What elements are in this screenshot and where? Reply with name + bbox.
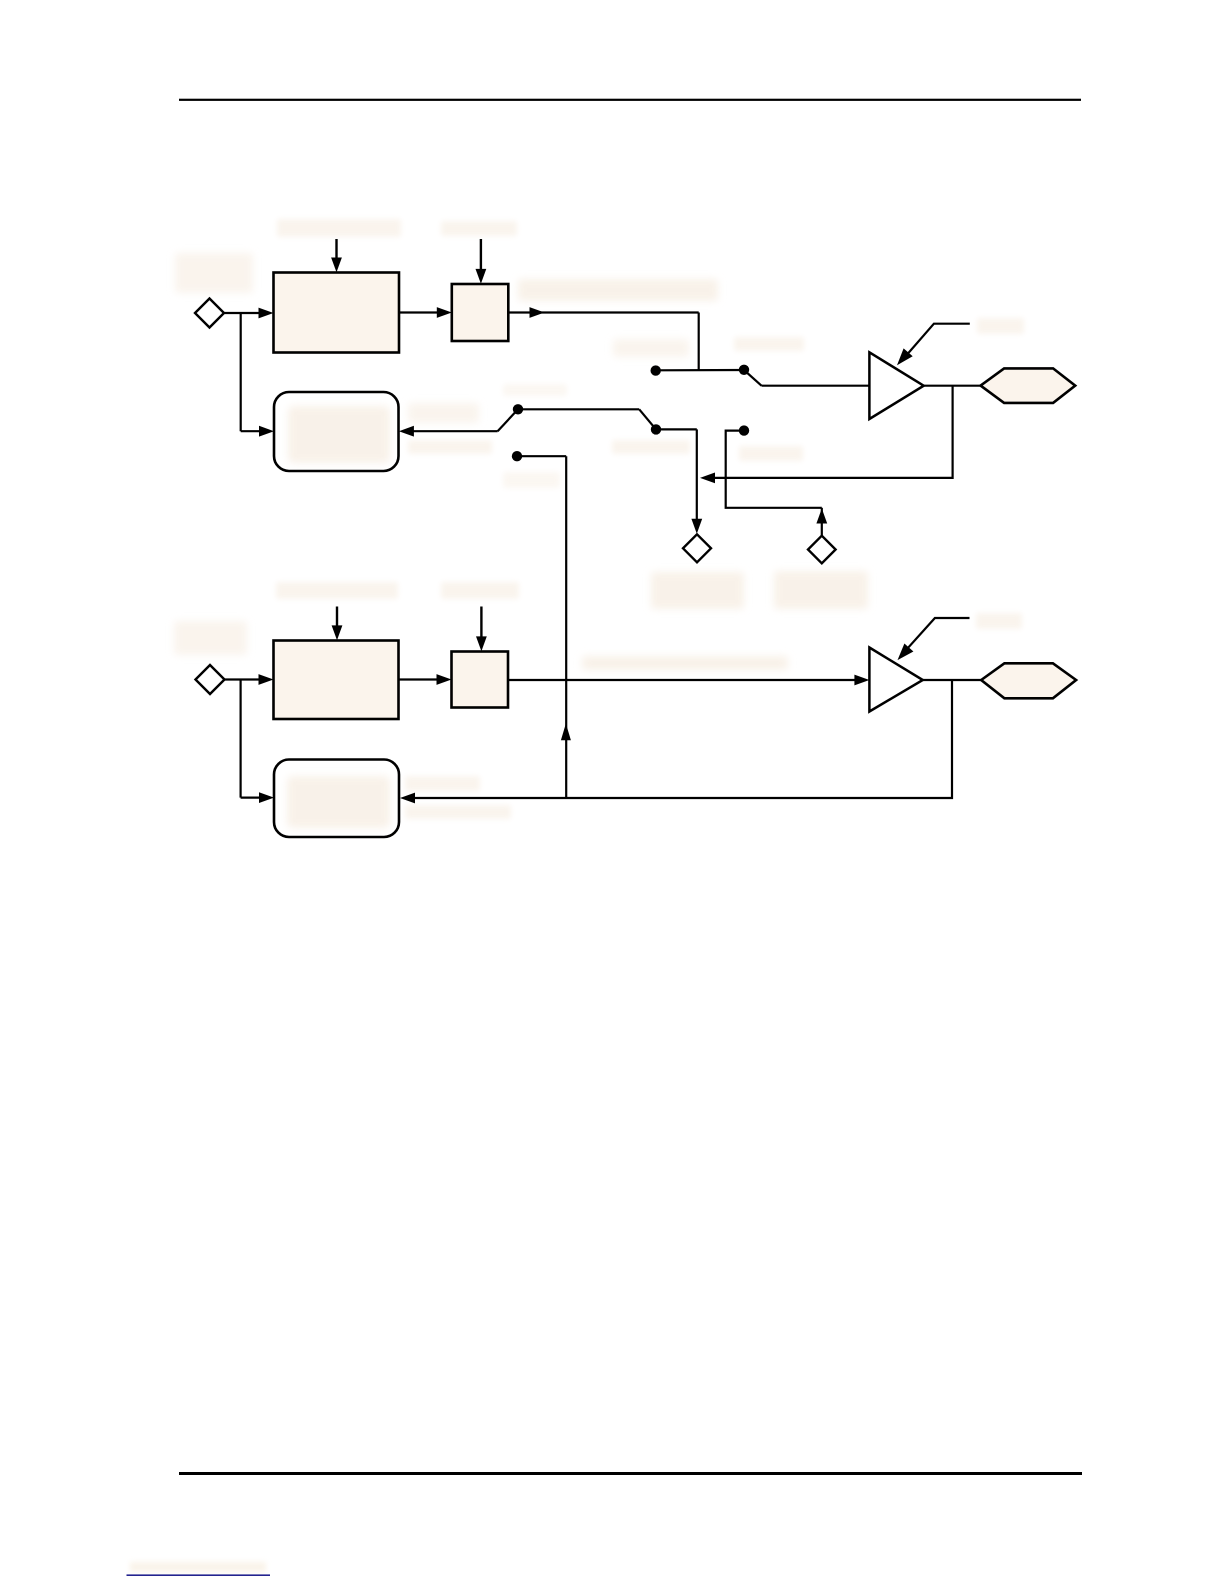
arrowhead feedback into U4r right — [400, 793, 415, 804]
header rule — [179, 99, 1081, 101]
control arrow into S1 top — [480, 239, 482, 270]
label: enable signal OE2 (blurred) — [976, 613, 1022, 629]
switch SW1 lever — [744, 370, 762, 386]
label: net name below switch SW2 lower contact (blurred) — [503, 472, 560, 488]
label: supply name below diamond G2 (blurred) — [774, 571, 868, 609]
label: pin name left of input diamond P2 (blurred) — [174, 621, 247, 655]
box U1 — [274, 273, 400, 353]
label: net name above feedback wire of U2 cell (blurred) — [405, 776, 480, 791]
label: text inside U4r (blurred) — [287, 776, 390, 828]
wire S1 to corner — [508, 311, 698, 313]
pad hexagon H2 — [981, 663, 1076, 698]
label: net name on mux row (blurred) — [612, 440, 690, 454]
wire branch down from P2 — [240, 680, 242, 798]
arrowhead into U3 left — [259, 426, 274, 437]
wire down to output diamond G1 — [696, 429, 698, 519]
wire SW1 to buffer U5 — [762, 385, 870, 387]
label: net name above switch SW1 right contact (blurred) — [734, 337, 804, 351]
label: long bus name right of square S1 (blurred) — [518, 279, 718, 301]
rounded box U4r — [274, 760, 399, 838]
arrowhead into U4r left — [259, 792, 274, 803]
label: net name above switch SW2 upper contact (blurred) — [503, 384, 567, 396]
label: net name below feedback wire of U2 cell (blurred) — [405, 805, 511, 819]
wire mux row to U3 — [413, 430, 498, 432]
label: signal name above square S1 (blurred) — [441, 221, 517, 236]
pad hexagon H1 — [981, 368, 1076, 403]
output buffer U6 — [869, 648, 922, 712]
feedback wire from U5 output — [715, 386, 953, 478]
wire J3 down-around to G2 — [726, 431, 822, 508]
junction dot SW3 contact — [651, 424, 661, 434]
wire SW2 lower contact to long vertical — [517, 455, 566, 457]
switch SW2 lever — [498, 409, 518, 431]
label: text inside U3 (blurred) — [288, 406, 390, 463]
pin diamond G2 — [808, 536, 836, 564]
wire SW3 to corner — [656, 428, 697, 430]
wire branch to rounded box U3 — [241, 430, 260, 432]
arrowhead feedback left — [700, 473, 715, 484]
label: net name above mux wire (blurred) — [408, 403, 479, 423]
input pad diamond P1 — [195, 299, 224, 328]
junction dot SW1 left contact — [651, 365, 661, 375]
footer link underline — [127, 1574, 271, 1576]
label: register name above box U1 (blurred) — [277, 219, 401, 237]
wire P1 to box U1 — [224, 312, 260, 314]
switch SW3 lever — [639, 409, 656, 429]
rounded box U3 — [274, 392, 399, 471]
arrowhead OE1 into U5 — [897, 348, 913, 365]
wire P2 to box U2 — [225, 678, 261, 680]
wire branch to rounded box U4r — [241, 796, 260, 798]
switch SW1 bar — [656, 369, 744, 371]
arrowhead OE2 into U6 — [898, 644, 914, 661]
arrowhead up on long vertical — [561, 724, 571, 741]
input pad diamond P2 — [196, 665, 225, 694]
label: signal name above square S2 (blurred) — [441, 582, 519, 599]
square S1 — [452, 284, 509, 341]
junction dot SW1 right contact — [739, 365, 749, 375]
enable OE2 wire — [901, 618, 969, 655]
arrowhead up at junction — [816, 509, 827, 524]
junction dot SW2 lower contact — [512, 451, 522, 461]
label: pin name left of input diamond P1 (blurred) — [175, 253, 253, 293]
arrowhead into U3 right — [399, 426, 414, 437]
label: net name below mux wire (blurred) — [408, 440, 492, 454]
wire U5 to pad hexagon H1 — [924, 385, 981, 387]
pin diamond G1 — [683, 534, 711, 562]
feedback wire from U6 output — [415, 680, 952, 798]
arrowhead on wire after S1 — [530, 307, 545, 318]
arrowhead into S2 left — [437, 674, 452, 685]
control arrow into S2 top — [480, 607, 482, 638]
wire U1 to square S1 — [399, 311, 438, 313]
label: register name above box U2 (blurred) — [276, 582, 398, 599]
wire S2 to buffer U6 — [508, 679, 855, 681]
arrowhead into U1 left — [259, 308, 274, 319]
wire branch down from P1 — [240, 313, 242, 431]
wire U6 to pad hexagon H2 — [923, 679, 981, 681]
footer link text (blurred) — [130, 1562, 266, 1572]
control arrow into U2 top — [336, 607, 338, 627]
label: bus name above wire to buffer U4 (blurred) — [582, 656, 788, 670]
footer rule — [179, 1472, 1082, 1475]
label: net name right of junction J3 (blurred) — [739, 446, 803, 461]
wire SW2 row — [518, 408, 639, 410]
output buffer U5 — [869, 352, 923, 419]
label: net name above switch SW1 left contact (blurred) — [613, 339, 689, 357]
enable OE1 wire — [901, 324, 970, 362]
wire U2 to square S2 — [399, 678, 439, 680]
junction dot SW2 upper contact — [513, 404, 523, 414]
square S2 — [452, 652, 509, 708]
wire G2 up — [821, 508, 823, 536]
label: enable signal OE1 (blurred) — [977, 318, 1024, 334]
arrowhead into G1 — [691, 519, 702, 534]
label: supply name below diamond G1 (blurred) — [651, 572, 744, 609]
arrowhead into S1 left — [437, 307, 452, 318]
junction dot J3 — [739, 425, 749, 435]
arrowhead into U6 — [854, 675, 869, 686]
box U2 — [274, 641, 399, 720]
long vertical wire down to lower cell — [565, 456, 567, 798]
arrowhead into U2 left — [259, 674, 274, 685]
control arrow into U1 top — [335, 239, 337, 258]
wire corner down to switch SW1 — [698, 313, 700, 371]
